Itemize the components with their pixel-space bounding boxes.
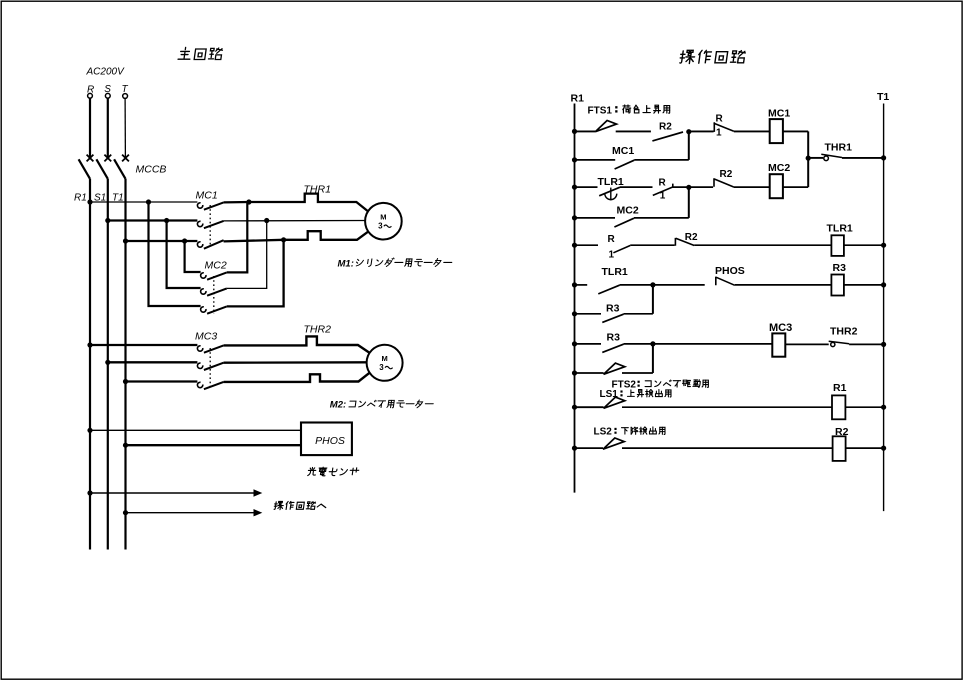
svg-text:3: 3: [379, 363, 384, 372]
wire MC1-THR1 connector: [807, 131, 809, 158]
node rail R1 arrow1: [87, 490, 92, 495]
wire rung7b riser: [652, 344, 654, 373]
rail S1: [107, 179, 109, 550]
node rung8 rail right: [881, 405, 886, 410]
node rung7 rail: [572, 341, 577, 346]
contact R3 NO rung6b: [602, 314, 623, 322]
motor M1: [365, 203, 402, 240]
svg-text:R3: R3: [606, 302, 620, 314]
contactor MC3 pole 2: [197, 363, 202, 368]
wire rung5 d: [844, 244, 884, 246]
contact TLR1 delay: [599, 187, 620, 196]
svg-text:MC1: MC1: [768, 107, 790, 119]
wire phase S drop: [107, 98, 109, 158]
wire rung9 b: [846, 447, 884, 449]
wire phos bottom: [126, 444, 302, 446]
MCCB terminal cross R: [87, 155, 94, 162]
node rail T1 row3: [123, 238, 128, 243]
svg-text:R: R: [659, 178, 667, 189]
switch LS1: [604, 397, 625, 408]
wire phase T drop: [124, 98, 126, 158]
breaker MCCB blade pole S: [96, 159, 107, 179]
contact R2 NC rung3: [714, 178, 733, 187]
svg-text:MCCB: MCCB: [136, 164, 167, 176]
svg-text:R1: R1: [571, 92, 585, 104]
wire rung3 e: [733, 186, 769, 188]
wire row1 left: [90, 201, 197, 203]
node rung7b rail: [572, 370, 577, 375]
MCCB terminal cross S: [104, 155, 111, 162]
breaker MCCB blade pole T: [114, 159, 125, 179]
wire MC2 pole2 input riser: [167, 221, 201, 289]
wire rung7 e: [849, 343, 884, 345]
svg-text:R3: R3: [607, 332, 621, 344]
svg-text:1: 1: [716, 127, 722, 138]
wire rowB right: [224, 361, 367, 364]
node row1 MC2 branch: [246, 199, 251, 204]
wire row2 left: [108, 219, 198, 221]
node rung6b rail: [572, 311, 577, 316]
wire row2 right: [224, 220, 365, 222]
title 操作回路: [679, 50, 745, 63]
wire rung5 a: [575, 244, 599, 246]
svg-text:1: 1: [660, 190, 666, 201]
label 光電センサ: [308, 467, 360, 476]
wire row3 left: [126, 240, 198, 242]
wire MC2 pole1 output riser: [227, 202, 248, 272]
node rung3 rail: [572, 185, 577, 190]
thermal relay THR2 heater rowC and wire: [224, 373, 370, 382]
wire rung7b a: [622, 372, 653, 374]
wire rung1 c: [689, 130, 714, 132]
wire phase R drop: [89, 98, 91, 158]
contactor MC2 pole 2: [201, 289, 206, 294]
wire rung6 e: [844, 284, 884, 286]
wire rung1 a: [575, 130, 596, 132]
terminal S: [105, 93, 110, 98]
contact MC2 aux NO: [614, 218, 634, 227]
switch FTS2: [604, 363, 625, 374]
wire rung8 a: [622, 406, 832, 408]
wire rung5 b: [630, 244, 674, 246]
wire MC2 pole1 input riser: [185, 241, 201, 272]
svg-text:R: R: [608, 234, 616, 245]
node rung3 junction: [686, 185, 691, 190]
contact R2 NC rung5: [675, 238, 694, 246]
contactor MC1 pole 1: [197, 203, 202, 208]
wire rung3 a: [575, 186, 598, 188]
contact R-1 NC rung1: [714, 122, 734, 132]
wire rung1 e: [783, 130, 808, 132]
wire THR1 a: [808, 157, 823, 159]
node rung1 junction: [686, 129, 691, 134]
contact PHOS NC: [716, 277, 735, 286]
svg-text:R1: R1: [833, 382, 847, 394]
wire rung6 b: [620, 284, 653, 286]
node rail R1 phos: [87, 428, 92, 433]
wire rung3 d: [689, 186, 713, 188]
wire row1 right with THR1 heater: [224, 194, 369, 212]
breaker MCCB blade pole R: [79, 159, 90, 179]
node row3 branch: [182, 238, 187, 243]
svg-text:MC2: MC2: [768, 162, 790, 174]
svg-text:LS1: LS1: [600, 389, 619, 400]
node row2 branch: [164, 218, 169, 223]
svg-text:R1: R1: [74, 192, 87, 203]
svg-text:PHOS: PHOS: [715, 265, 745, 277]
contact TLR1 NO rung6: [598, 285, 619, 294]
wire rung3 c: [673, 186, 689, 188]
node rung5 rail right: [881, 243, 886, 248]
svg-text:M: M: [380, 213, 386, 222]
switch FTS1: [595, 121, 616, 132]
contact R NO rung5: [613, 246, 630, 253]
svg-text:TLR1: TLR1: [602, 266, 628, 278]
node rail R1 rowA: [87, 342, 92, 347]
wire rung6 c: [653, 284, 705, 286]
motor M2: [367, 345, 403, 381]
wire rung6 d: [735, 284, 832, 286]
svg-text:THR2: THR2: [830, 326, 858, 338]
node rung6 rail right: [881, 282, 886, 287]
sensor PHOS box: [301, 423, 352, 456]
wire rung4 b: [634, 217, 689, 219]
wire rung1-rung2 connector: [688, 131, 690, 160]
node rung5 rail: [572, 243, 577, 248]
MCCB terminal cross T: [122, 155, 129, 162]
coil R3: [831, 275, 844, 296]
svg-text:MC3: MC3: [769, 322, 792, 334]
svg-text:THR2: THR2: [304, 324, 332, 336]
svg-text:AC200V: AC200V: [86, 67, 126, 78]
svg-text:R2: R2: [685, 232, 698, 243]
wire rung1 b: [616, 130, 651, 132]
node rail T1 rowC: [123, 379, 128, 384]
node rail S1 rowB: [105, 360, 110, 365]
contactor MC2 pole 1: [201, 273, 206, 278]
wire rung9 a: [622, 447, 833, 449]
wire rung8 b: [845, 406, 883, 408]
contact R3 NO rung7: [602, 344, 623, 352]
wire rung8 stub: [575, 406, 604, 408]
svg-text:TLR1: TLR1: [827, 222, 853, 234]
MC1 mechanical link: [209, 205, 211, 247]
wire phos top: [90, 429, 301, 431]
svg-text:MC2: MC2: [617, 205, 639, 217]
title 主回路: [178, 47, 223, 59]
wire rung5 c: [694, 244, 831, 246]
svg-text:FTS1: FTS1: [588, 106, 613, 117]
wire rung4 a: [575, 217, 616, 219]
node row1 branch: [146, 199, 151, 204]
wire rung2 b: [634, 159, 689, 161]
arrow to control circuit 2: [126, 512, 255, 514]
wire rung1 d: [734, 130, 770, 132]
rail R1: [89, 179, 91, 550]
coil R2: [833, 436, 846, 461]
wire rung6b riser: [652, 285, 654, 314]
node rung6 rail: [572, 282, 577, 287]
wire MC2 pole3 input riser: [149, 202, 201, 306]
coil R1: [832, 395, 845, 419]
terminal T: [123, 94, 128, 99]
bus T1 right rail: [883, 104, 885, 512]
svg-text:M2:: M2:: [330, 400, 346, 411]
terminal R: [88, 93, 93, 98]
coil TLR1: [831, 235, 844, 256]
MC3 mechanical link: [209, 348, 211, 386]
contact THR1 NC: [824, 156, 829, 161]
wire rung7 d: [785, 343, 828, 345]
label 操作回路へ: [274, 501, 327, 509]
svg-text:MC1: MC1: [612, 145, 634, 157]
coil MC3: [772, 333, 785, 356]
node rung2 rail: [572, 157, 577, 162]
wire rowA left: [90, 344, 197, 346]
contactor MC1 pole 2: [197, 221, 202, 226]
contactor MC1 pole 3: [197, 242, 202, 247]
MC2 mechanical link: [213, 276, 215, 314]
wire rung6b a: [575, 313, 602, 315]
svg-text:R2: R2: [720, 169, 733, 180]
wire rowB left: [108, 361, 198, 363]
wire rung3-rung4 connector: [688, 187, 690, 218]
node row2 MC2 branch: [264, 218, 269, 223]
wire rung3 f: [783, 186, 808, 188]
contact THR2 NC: [831, 342, 835, 346]
svg-text:PHOS: PHOS: [315, 435, 345, 447]
coil MC2: [770, 174, 783, 198]
node rail T1 arrow2: [123, 510, 128, 515]
bus R1 left rail: [574, 104, 576, 493]
wire MC2 pole3 output riser: [227, 240, 284, 307]
svg-text:MC2: MC2: [205, 259, 227, 271]
wire rung2 a: [575, 159, 616, 161]
svg-text:T1: T1: [877, 91, 889, 103]
contact MC1 aux NO: [615, 160, 635, 169]
node rung1 rail: [572, 129, 577, 134]
contactor MC3 pole 3: [197, 382, 202, 387]
wire THR1 b: [842, 157, 884, 159]
svg-text:THR1: THR1: [304, 183, 331, 195]
arrow to control circuit 1: [90, 492, 254, 494]
switch LS2: [603, 438, 624, 449]
svg-text:M1:: M1:: [338, 258, 354, 269]
wire rung7 b: [624, 343, 653, 345]
svg-text:MC1: MC1: [196, 190, 218, 202]
node THR1 rail: [881, 155, 886, 160]
wire rung3 b: [620, 186, 653, 188]
svg-text:3: 3: [378, 222, 383, 231]
node row3 MC2 branch: [281, 237, 286, 242]
coil MC1: [770, 119, 783, 143]
svg-text:THR1: THR1: [825, 141, 853, 153]
wire rung9 stub: [575, 447, 604, 449]
thermal relay THR1 heater row3 and wire: [224, 231, 370, 242]
node rung8 rail: [572, 405, 577, 410]
wire rowA right with THR2 heater: [224, 336, 370, 353]
wire rung6b b: [624, 313, 653, 315]
node rung9 rail right: [881, 446, 886, 451]
wire rung7b stub: [575, 372, 604, 374]
node rung6 junction: [650, 282, 655, 287]
wire rung7 a: [575, 343, 602, 345]
contactor MC2 pole 3: [201, 307, 206, 312]
node THR1 junction: [806, 156, 811, 161]
svg-text:R3: R3: [833, 262, 847, 274]
svg-text:R2: R2: [659, 121, 672, 132]
contactor MC3 pole 1: [197, 346, 202, 351]
node rung4 rail: [572, 215, 577, 220]
svg-text:M: M: [381, 354, 387, 363]
contact R2 rung1: [652, 132, 683, 141]
wire rung6 a: [575, 284, 588, 286]
contact R-1 NC rung3: [653, 184, 673, 196]
svg-text:R: R: [716, 113, 724, 124]
node rung7 junction: [650, 341, 655, 346]
node rail R1 row1: [87, 199, 92, 204]
wire MC2 pole2 output riser: [227, 221, 267, 289]
wire rung7 c: [653, 343, 772, 345]
node rail S1 row2: [105, 218, 110, 223]
rail T1: [124, 179, 126, 550]
svg-text:LS2: LS2: [594, 427, 613, 438]
node rail T1 phos: [123, 443, 128, 448]
svg-text:1: 1: [609, 250, 615, 261]
wire rowC left: [126, 380, 198, 382]
node rung9 rail: [572, 446, 577, 451]
svg-text:MC3: MC3: [195, 331, 217, 343]
wire MC2-THR1 connector: [807, 158, 809, 187]
svg-text:TLR1: TLR1: [598, 176, 624, 188]
node rung7 rail right: [881, 342, 886, 347]
